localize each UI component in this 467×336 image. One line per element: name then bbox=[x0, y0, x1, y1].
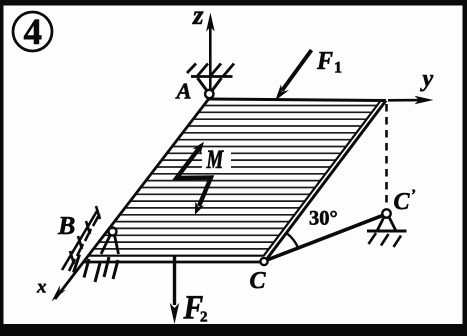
support at A: triangle bbox=[198, 78, 222, 91]
dashed line from plate corner down to C' bbox=[385, 104, 388, 207]
F1 label bbox=[317, 52, 333, 69]
wall hatching branch upper-left of B edge: central line bbox=[62, 211, 97, 270]
z label bbox=[192, 12, 203, 24]
force F2 arrowhead bbox=[170, 303, 179, 324]
C label bbox=[250, 272, 265, 288]
wall hatching comb lower-right of B edge bbox=[74, 255, 119, 283]
plate right edge inner line bbox=[264, 102, 381, 257]
x-axis arrowhead bbox=[52, 285, 67, 301]
force F1 arrow bbox=[282, 50, 312, 91]
moment M top arrowhead bbox=[193, 142, 204, 155]
plate bottom edge lower line bbox=[83, 261, 263, 264]
support at B: triangle legs bbox=[101, 235, 119, 255]
white gap behind M label bbox=[202, 148, 231, 170]
support at C': base line bbox=[367, 230, 407, 233]
support at A: pin circle bbox=[205, 90, 213, 98]
moment M bottom arrowhead bbox=[195, 201, 204, 215]
plate left edge and x-axis line bbox=[55, 99, 209, 300]
x label bbox=[37, 284, 46, 293]
y-axis arrowhead bbox=[415, 96, 434, 104]
border frame top bar bbox=[0, 0, 467, 6]
wall hatching branch whiskers bbox=[69, 206, 100, 271]
support at C': pin circle bbox=[382, 209, 390, 217]
y-axis bbox=[388, 99, 424, 102]
plate hatching lines bbox=[93, 106, 377, 249]
z-axis bbox=[209, 20, 212, 93]
border frame bottom bar bbox=[0, 324, 467, 336]
30 degree label bbox=[310, 211, 337, 225]
figure number circle 4 bbox=[13, 12, 52, 51]
support at C': base hatches bbox=[369, 233, 402, 247]
pin circle at C bbox=[260, 258, 267, 265]
M label bbox=[206, 151, 224, 168]
F2 label bbox=[184, 296, 203, 318]
plate bottom edge upper line bbox=[88, 255, 264, 257]
z-axis arrowhead bbox=[206, 13, 215, 32]
border frame right bar bbox=[463, 0, 467, 336]
B label bbox=[58, 217, 75, 234]
force F2 arrow bbox=[173, 256, 176, 305]
border frame left bar bbox=[0, 0, 4, 336]
support at A: hatched bar bbox=[187, 64, 234, 78]
plate right edge outer line bbox=[265, 101, 387, 263]
A label bbox=[175, 84, 190, 99]
moment M zigzag arrow bbox=[177, 147, 212, 206]
figure number 4 bbox=[24, 20, 41, 44]
30 degree angle arc bbox=[287, 233, 298, 247]
support at C': triangle legs bbox=[378, 217, 396, 230]
support at B: pin circle bbox=[109, 228, 117, 236]
y label bbox=[420, 75, 433, 91]
rod C to C' bbox=[267, 215, 385, 261]
C' label bbox=[394, 190, 415, 210]
force F1 arrowhead bbox=[275, 84, 289, 100]
plate top edge A to top-right corner bbox=[209, 99, 386, 101]
